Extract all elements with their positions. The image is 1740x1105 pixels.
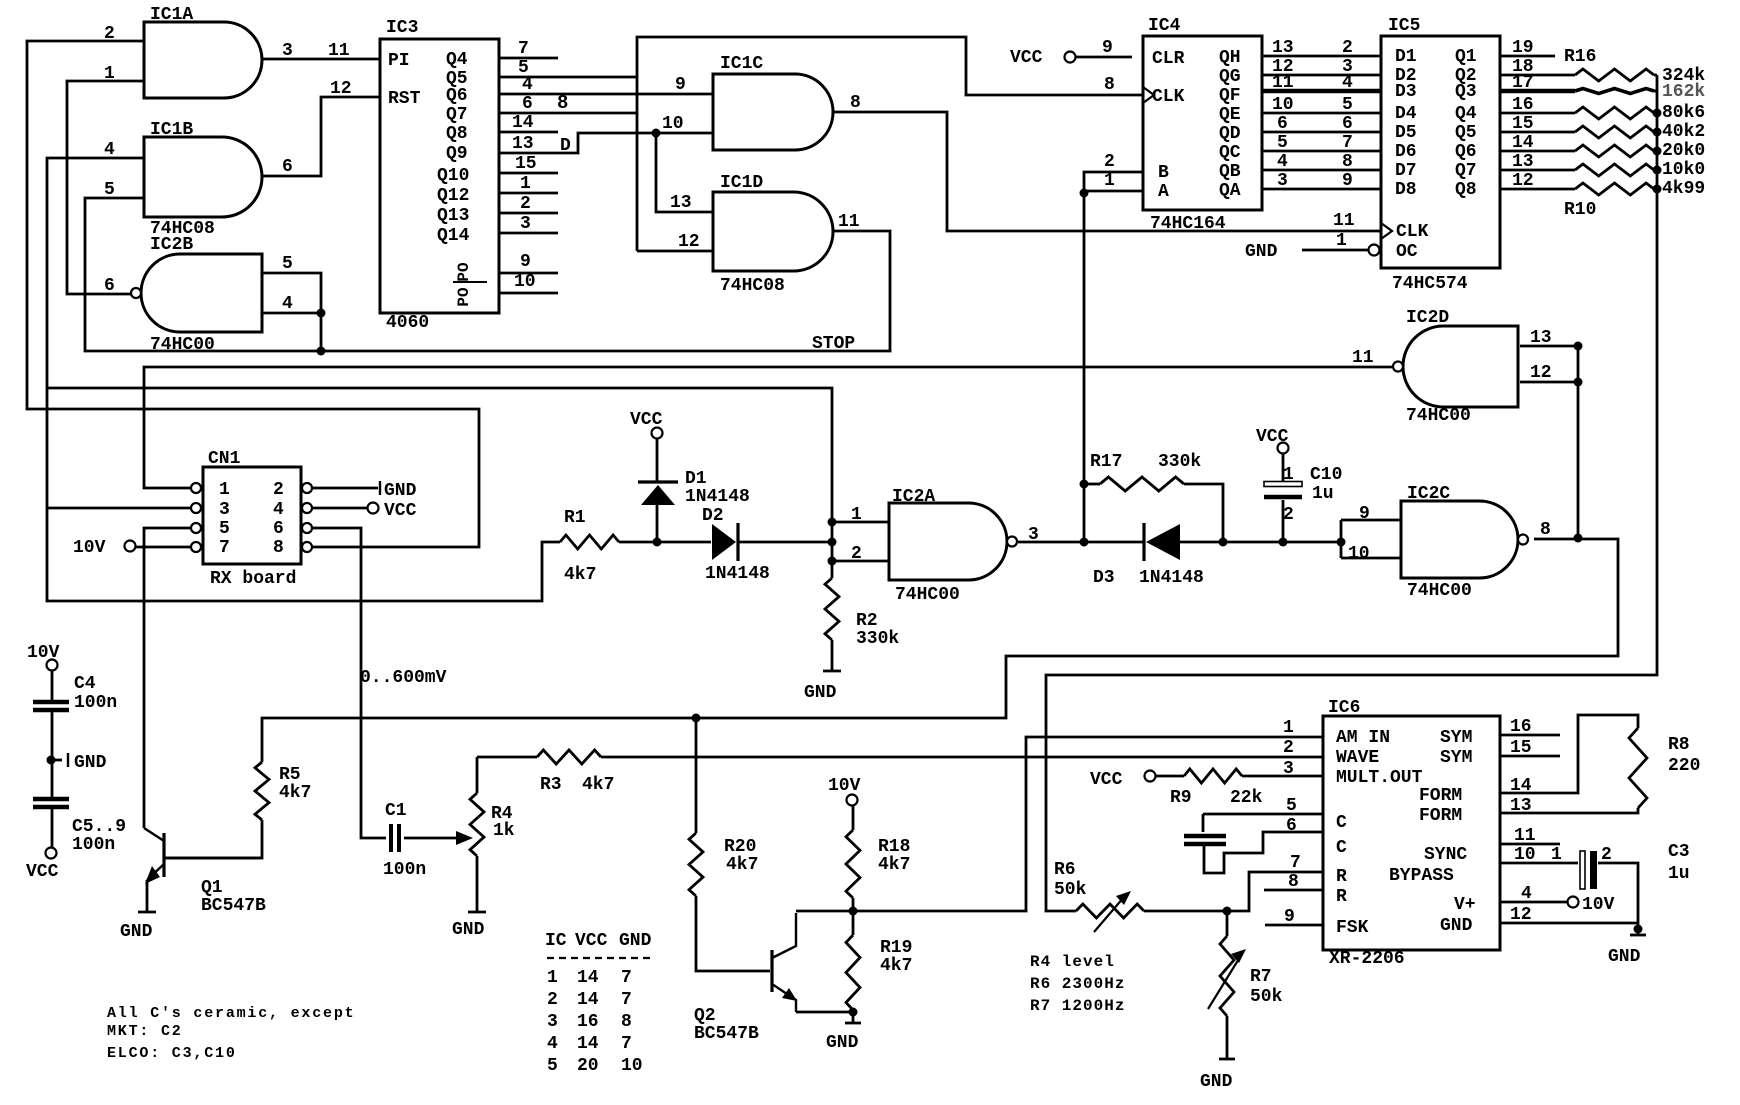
- svg-text:330k: 330k: [1158, 452, 1201, 472]
- svg-text:1: 1: [219, 480, 230, 500]
- svg-text:Q8: Q8: [446, 124, 468, 144]
- svg-text:C: C: [1336, 813, 1347, 833]
- svg-text:Q14: Q14: [437, 226, 470, 246]
- svg-text:PI: PI: [388, 51, 410, 71]
- svg-text:C4: C4: [74, 674, 96, 694]
- svg-text:R1: R1: [564, 508, 586, 528]
- svg-text:C1: C1: [385, 801, 407, 821]
- svg-text:22k: 22k: [1230, 788, 1263, 808]
- svg-text:80k6: 80k6: [1662, 103, 1705, 123]
- svg-text:1N4148: 1N4148: [1139, 568, 1204, 588]
- svg-text:Q7: Q7: [1455, 161, 1477, 181]
- svg-text:STOP: STOP: [812, 334, 855, 354]
- svg-text:6: 6: [104, 276, 115, 296]
- svg-text:7: 7: [621, 1034, 632, 1054]
- svg-text:D1: D1: [1395, 47, 1417, 67]
- svg-text:100n: 100n: [74, 693, 117, 713]
- svg-text:Q4: Q4: [1455, 104, 1477, 124]
- svg-text:4: 4: [273, 500, 284, 520]
- svg-text:SYNC: SYNC: [1424, 845, 1467, 865]
- svg-text:19: 19: [1512, 38, 1534, 58]
- svg-text:10: 10: [1348, 544, 1370, 564]
- svg-text:WAVE: WAVE: [1336, 748, 1379, 768]
- svg-text:QB: QB: [1219, 162, 1241, 182]
- svg-text:R4 level: R4 level: [1030, 953, 1115, 971]
- svg-text:1u: 1u: [1312, 484, 1334, 504]
- svg-text:R: R: [1336, 887, 1347, 907]
- svg-text:IC2B: IC2B: [150, 235, 193, 255]
- svg-text:2: 2: [547, 990, 558, 1010]
- svg-text:12: 12: [330, 79, 352, 99]
- svg-text:6: 6: [282, 157, 293, 177]
- svg-text:12: 12: [678, 232, 700, 252]
- svg-text:CLK: CLK: [1152, 87, 1185, 107]
- svg-text:D3: D3: [1395, 82, 1417, 102]
- svg-text:QF: QF: [1219, 86, 1241, 106]
- svg-text:D3: D3: [1093, 568, 1115, 588]
- svg-text:13: 13: [1530, 328, 1552, 348]
- svg-text:9: 9: [1342, 171, 1353, 191]
- svg-text:15: 15: [1512, 114, 1534, 134]
- svg-text:0..600mV: 0..600mV: [360, 668, 447, 688]
- svg-text:C10: C10: [1310, 465, 1342, 485]
- svg-text:GND: GND: [619, 931, 652, 951]
- svg-text:4: 4: [547, 1034, 558, 1054]
- svg-text:BYPASS: BYPASS: [1389, 866, 1454, 886]
- svg-text:3: 3: [219, 500, 230, 520]
- svg-text:R2: R2: [856, 611, 878, 631]
- svg-text:R18: R18: [878, 837, 910, 857]
- svg-text:BC547B: BC547B: [201, 896, 266, 916]
- svg-text:BC547B: BC547B: [694, 1024, 759, 1044]
- svg-text:15: 15: [1510, 738, 1532, 758]
- svg-text:13: 13: [1272, 38, 1294, 58]
- svg-text:3: 3: [1028, 525, 1039, 545]
- svg-text:C5..9: C5..9: [72, 817, 126, 837]
- svg-text:14: 14: [512, 113, 534, 133]
- svg-text:R7 1200Hz: R7 1200Hz: [1030, 997, 1125, 1015]
- svg-text:7: 7: [1290, 853, 1301, 873]
- svg-text:14: 14: [577, 1034, 599, 1054]
- svg-text:14: 14: [577, 990, 599, 1010]
- svg-text:MKT: C2: MKT: C2: [107, 1023, 183, 1040]
- svg-text:R19: R19: [880, 938, 912, 958]
- svg-text:4k7: 4k7: [582, 775, 614, 795]
- svg-text:9: 9: [675, 75, 686, 95]
- svg-text:16: 16: [1510, 717, 1532, 737]
- svg-text:9: 9: [1359, 504, 1370, 524]
- svg-text:74HC574: 74HC574: [1392, 274, 1468, 294]
- svg-text:R5: R5: [279, 765, 301, 785]
- svg-text:4: 4: [104, 140, 115, 160]
- svg-text:20k0: 20k0: [1662, 141, 1705, 161]
- svg-text:4k99: 4k99: [1662, 179, 1705, 199]
- svg-text:12: 12: [1530, 363, 1552, 383]
- svg-text:IC1D: IC1D: [720, 173, 763, 193]
- svg-text:ELCO: C3,C10: ELCO: C3,C10: [107, 1045, 237, 1062]
- svg-text:1: 1: [520, 174, 531, 194]
- svg-text:9: 9: [1284, 907, 1295, 927]
- svg-text:1N4148: 1N4148: [705, 564, 770, 584]
- svg-text:Q7: Q7: [446, 105, 468, 125]
- svg-text:Q13: Q13: [437, 206, 469, 226]
- svg-text:D2: D2: [702, 506, 724, 526]
- svg-text:5: 5: [219, 519, 230, 539]
- svg-text:R16: R16: [1564, 47, 1596, 67]
- svg-text:11: 11: [1333, 211, 1355, 231]
- svg-text:10V: 10V: [27, 643, 60, 663]
- svg-text:QE: QE: [1219, 105, 1241, 125]
- svg-text:15: 15: [515, 154, 537, 174]
- svg-text:IC: IC: [545, 931, 567, 951]
- svg-text:1: 1: [1551, 845, 1562, 865]
- svg-text:IC5: IC5: [1388, 16, 1420, 36]
- svg-text:D7: D7: [1395, 161, 1417, 181]
- svg-text:7: 7: [621, 968, 632, 988]
- svg-text:100n: 100n: [383, 860, 426, 880]
- svg-text:PO: PO: [455, 287, 473, 307]
- svg-text:10V: 10V: [828, 776, 861, 796]
- svg-text:RST: RST: [388, 89, 421, 109]
- svg-text:Q5: Q5: [1455, 123, 1477, 143]
- svg-text:50k: 50k: [1250, 987, 1283, 1007]
- svg-text:D1: D1: [685, 469, 707, 489]
- svg-text:R17: R17: [1090, 452, 1122, 472]
- svg-text:6: 6: [273, 519, 284, 539]
- svg-text:IC1B: IC1B: [150, 120, 193, 140]
- svg-text:D5: D5: [1395, 123, 1417, 143]
- svg-text:D8: D8: [1395, 180, 1417, 200]
- svg-text:CLR: CLR: [1152, 49, 1185, 69]
- svg-text:Q2: Q2: [694, 1006, 716, 1026]
- svg-text:7: 7: [518, 39, 529, 59]
- svg-text:QH: QH: [1219, 48, 1241, 68]
- svg-text:5: 5: [1277, 133, 1288, 153]
- svg-text:FSK: FSK: [1336, 918, 1369, 938]
- svg-text:8: 8: [1342, 152, 1353, 172]
- svg-text:8: 8: [850, 93, 861, 113]
- svg-text:GND: GND: [826, 1033, 859, 1053]
- svg-text:16: 16: [1512, 95, 1534, 115]
- svg-text:2: 2: [1342, 38, 1353, 58]
- svg-text:R7: R7: [1250, 967, 1272, 987]
- svg-text:R20: R20: [724, 837, 756, 857]
- svg-text:74HC00: 74HC00: [1407, 581, 1472, 601]
- svg-text:VCC: VCC: [1010, 48, 1043, 68]
- svg-text:6: 6: [1342, 114, 1353, 134]
- svg-text:10k0: 10k0: [1662, 160, 1705, 180]
- svg-text:VCC: VCC: [1090, 770, 1123, 790]
- svg-text:14: 14: [1510, 776, 1532, 796]
- svg-text:11: 11: [328, 41, 350, 61]
- svg-text:4: 4: [1342, 73, 1353, 93]
- svg-text:Q4: Q4: [446, 50, 468, 70]
- svg-text:R8: R8: [1668, 735, 1690, 755]
- svg-text:40k2: 40k2: [1662, 122, 1705, 142]
- svg-text:4k7: 4k7: [564, 565, 596, 585]
- svg-text:GND: GND: [1200, 1072, 1233, 1092]
- svg-text:R: R: [1336, 867, 1347, 887]
- svg-text:5: 5: [282, 254, 293, 274]
- svg-text:Q10: Q10: [437, 166, 469, 186]
- svg-text:1N4148: 1N4148: [685, 487, 750, 507]
- svg-text:2: 2: [520, 194, 531, 214]
- svg-text:D6: D6: [1395, 142, 1417, 162]
- svg-text:R6 2300Hz: R6 2300Hz: [1030, 975, 1125, 993]
- svg-text:GND: GND: [74, 753, 107, 773]
- svg-text:VCC: VCC: [575, 931, 608, 951]
- svg-text:C: C: [1336, 838, 1347, 858]
- svg-text:Q1: Q1: [1455, 47, 1477, 67]
- svg-text:8: 8: [273, 538, 284, 558]
- svg-text:3: 3: [547, 1012, 558, 1032]
- svg-text:1: 1: [851, 505, 862, 525]
- svg-text:5: 5: [1286, 796, 1297, 816]
- svg-text:SYM: SYM: [1440, 748, 1472, 768]
- svg-text:FORM: FORM: [1419, 806, 1462, 826]
- svg-text:IC3: IC3: [386, 18, 418, 38]
- svg-text:IC2C: IC2C: [1407, 484, 1450, 504]
- svg-text:VCC: VCC: [1256, 427, 1289, 447]
- svg-text:IC1C: IC1C: [720, 54, 763, 74]
- svg-text:10V: 10V: [73, 538, 106, 558]
- svg-text:4: 4: [282, 294, 293, 314]
- svg-text:7: 7: [621, 990, 632, 1010]
- svg-text:7: 7: [219, 538, 230, 558]
- svg-text:14: 14: [577, 968, 599, 988]
- svg-text:GND: GND: [120, 922, 153, 942]
- svg-text:All C's ceramic, except: All C's ceramic, except: [107, 1005, 355, 1022]
- svg-text:10: 10: [662, 114, 684, 134]
- svg-text:17: 17: [1512, 73, 1534, 93]
- svg-text:6: 6: [1286, 816, 1297, 836]
- svg-text:11: 11: [838, 212, 860, 232]
- svg-text:9: 9: [520, 252, 531, 272]
- svg-text:74HC00: 74HC00: [1406, 406, 1471, 426]
- svg-text:Q6: Q6: [446, 86, 468, 106]
- svg-text:6: 6: [522, 94, 533, 114]
- svg-text:2: 2: [851, 544, 862, 564]
- svg-text:A: A: [1158, 182, 1169, 202]
- svg-text:14: 14: [1512, 133, 1534, 153]
- svg-text:R6: R6: [1054, 860, 1076, 880]
- svg-text:9: 9: [1102, 38, 1113, 58]
- svg-text:4: 4: [1277, 152, 1288, 172]
- svg-text:3: 3: [1283, 759, 1294, 779]
- svg-text:VCC: VCC: [630, 410, 663, 430]
- svg-text:XR-2206: XR-2206: [1329, 949, 1405, 969]
- svg-text:Q12: Q12: [437, 186, 469, 206]
- svg-text:2: 2: [1601, 845, 1612, 865]
- svg-text:13: 13: [1512, 152, 1534, 172]
- svg-text:220: 220: [1668, 756, 1700, 776]
- svg-text:2: 2: [104, 24, 115, 44]
- svg-text:5: 5: [1342, 95, 1353, 115]
- svg-text:QA: QA: [1219, 181, 1241, 201]
- svg-text:8: 8: [557, 92, 568, 114]
- svg-text:GND: GND: [1245, 242, 1278, 262]
- svg-text:6: 6: [1277, 114, 1288, 134]
- svg-text:3: 3: [1277, 171, 1288, 191]
- svg-text:QG: QG: [1219, 67, 1241, 87]
- svg-text:GND: GND: [1608, 947, 1641, 967]
- svg-text:Q3: Q3: [1455, 82, 1477, 102]
- svg-text:1: 1: [1336, 231, 1347, 251]
- svg-text:PO: PO: [455, 262, 473, 282]
- svg-text:GND: GND: [804, 683, 837, 703]
- svg-text:3: 3: [282, 41, 293, 61]
- svg-text:50k: 50k: [1054, 880, 1087, 900]
- svg-text:B: B: [1158, 163, 1169, 183]
- svg-text:1: 1: [104, 64, 115, 84]
- svg-text:5: 5: [104, 180, 115, 200]
- svg-text:VCC: VCC: [384, 501, 417, 521]
- svg-text:10: 10: [1514, 845, 1536, 865]
- svg-text:R10: R10: [1564, 200, 1596, 220]
- svg-text:10: 10: [514, 272, 536, 292]
- svg-text:FORM: FORM: [1419, 786, 1462, 806]
- svg-text:4060: 4060: [386, 313, 429, 333]
- svg-text:2: 2: [1283, 505, 1294, 525]
- svg-text:8: 8: [1288, 872, 1299, 892]
- svg-text:10: 10: [1272, 95, 1294, 115]
- svg-text:11: 11: [1514, 826, 1536, 846]
- svg-text:V+: V+: [1454, 895, 1476, 915]
- svg-text:D4: D4: [1395, 104, 1417, 124]
- svg-text:1: 1: [1283, 718, 1294, 738]
- svg-text:16: 16: [577, 1012, 599, 1032]
- svg-text:GND: GND: [1440, 916, 1473, 936]
- svg-text:7: 7: [1342, 133, 1353, 153]
- svg-text:1k: 1k: [493, 821, 515, 841]
- svg-text:GND: GND: [384, 481, 417, 501]
- svg-text:IC2A: IC2A: [892, 487, 935, 507]
- svg-text:Q8: Q8: [1455, 180, 1477, 200]
- svg-text:QD: QD: [1219, 124, 1241, 144]
- svg-text:4k7: 4k7: [726, 855, 758, 875]
- svg-text:GND: GND: [452, 920, 485, 940]
- svg-text:4: 4: [1521, 884, 1532, 904]
- svg-text:4k7: 4k7: [880, 956, 912, 976]
- svg-text:74HC164: 74HC164: [1150, 214, 1226, 234]
- svg-text:11: 11: [1272, 73, 1294, 93]
- svg-text:QC: QC: [1219, 143, 1241, 163]
- svg-text:4: 4: [522, 75, 533, 95]
- svg-text:1: 1: [547, 968, 558, 988]
- svg-text:12: 12: [1512, 171, 1534, 191]
- svg-text:IC2D: IC2D: [1406, 308, 1449, 328]
- svg-text:74HC00: 74HC00: [150, 335, 215, 355]
- svg-text:IC1A: IC1A: [150, 5, 193, 25]
- svg-text:74HC08: 74HC08: [720, 276, 785, 296]
- svg-text:1: 1: [1104, 171, 1115, 191]
- svg-text:3: 3: [520, 214, 531, 234]
- svg-text:13: 13: [512, 134, 534, 154]
- svg-text:2: 2: [1104, 152, 1115, 172]
- svg-text:10: 10: [621, 1056, 643, 1076]
- svg-text:13: 13: [670, 193, 692, 213]
- svg-text:1: 1: [1283, 465, 1294, 485]
- svg-text:SYM: SYM: [1440, 728, 1472, 748]
- svg-text:1u: 1u: [1668, 864, 1690, 884]
- svg-text:4k7: 4k7: [279, 783, 311, 803]
- svg-text:D: D: [560, 136, 571, 156]
- svg-text:330k: 330k: [856, 629, 899, 649]
- svg-text:Q1: Q1: [201, 878, 223, 898]
- svg-text:R3: R3: [540, 775, 562, 795]
- svg-text:162k: 162k: [1662, 82, 1705, 102]
- svg-text:MULT.OUT: MULT.OUT: [1336, 768, 1423, 788]
- svg-text:IC6: IC6: [1328, 698, 1360, 718]
- svg-text:8: 8: [1540, 520, 1551, 540]
- svg-text:RX board: RX board: [210, 569, 296, 589]
- svg-text:CLK: CLK: [1396, 222, 1429, 242]
- svg-text:8: 8: [621, 1012, 632, 1032]
- svg-text:Q6: Q6: [1455, 142, 1477, 162]
- svg-text:12: 12: [1510, 905, 1532, 925]
- svg-text:OC: OC: [1396, 242, 1418, 262]
- svg-text:8: 8: [1104, 75, 1115, 95]
- svg-text:11: 11: [1352, 348, 1374, 368]
- svg-text:R9: R9: [1170, 788, 1192, 808]
- svg-text:IC4: IC4: [1148, 16, 1181, 36]
- svg-text:2: 2: [273, 480, 284, 500]
- svg-text:13: 13: [1510, 796, 1532, 816]
- svg-text:10V: 10V: [1582, 895, 1615, 915]
- svg-text:2: 2: [1283, 738, 1294, 758]
- svg-text:5: 5: [547, 1056, 558, 1076]
- svg-text:AM IN: AM IN: [1336, 728, 1390, 748]
- svg-text:C3: C3: [1668, 842, 1690, 862]
- svg-text:Q9: Q9: [446, 144, 468, 164]
- svg-text:74HC00: 74HC00: [895, 585, 960, 605]
- svg-text:20: 20: [577, 1056, 599, 1076]
- svg-text:CN1: CN1: [208, 449, 241, 469]
- svg-text:VCC: VCC: [26, 862, 59, 882]
- svg-text:4k7: 4k7: [878, 855, 910, 875]
- svg-text:100n: 100n: [72, 835, 115, 855]
